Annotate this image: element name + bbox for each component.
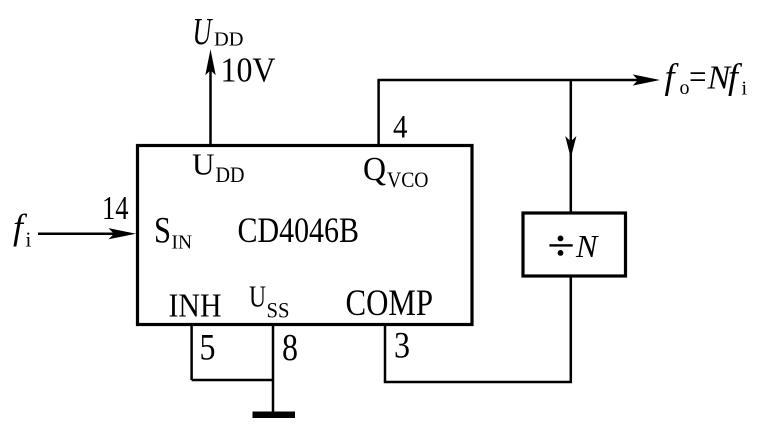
arrowhead right to fo bbox=[633, 74, 660, 85]
node input fi label bbox=[13, 207, 32, 252]
svg-text:INH: INH bbox=[169, 288, 222, 325]
label CD4046B bbox=[238, 210, 360, 250]
pin number 3 bbox=[394, 326, 410, 367]
divider block divide-by-N box bbox=[523, 213, 626, 276]
arrowhead down on divider wire bbox=[565, 136, 576, 158]
wire fi input with arrowhead into pin 14 bbox=[38, 228, 136, 239]
svg-text:5: 5 bbox=[200, 328, 216, 369]
ground bbox=[253, 412, 296, 419]
svg-text:S: S bbox=[154, 210, 171, 251]
pin number 5 bbox=[200, 328, 216, 369]
svg-text:14: 14 bbox=[102, 190, 129, 227]
pin label COMP (inside box) bbox=[346, 283, 434, 324]
svg-text:Q: Q bbox=[363, 151, 386, 188]
svg-text:COMP: COMP bbox=[346, 283, 434, 324]
svg-text:i: i bbox=[742, 78, 748, 100]
svg-text:10V: 10V bbox=[221, 52, 276, 90]
wire junction drop to divider bbox=[570, 80, 573, 214]
IC U1 CD4046B box bbox=[138, 146, 473, 325]
wire pin4 riser QVCO bbox=[377, 80, 380, 145]
svg-text:DD: DD bbox=[214, 29, 244, 51]
label N in divider bbox=[575, 228, 599, 264]
arrowhead up to UDD bbox=[205, 49, 215, 75]
pin number 4 bbox=[393, 110, 408, 146]
wire UDD supply (pin 16 riser) bbox=[209, 69, 212, 147]
wire COMP to divider bottom bbox=[384, 276, 571, 383]
svg-text:VCO: VCO bbox=[387, 167, 429, 192]
pin number 14 bbox=[102, 190, 129, 227]
svg-text:CD4046B: CD4046B bbox=[238, 210, 360, 250]
wire output top horizontal bbox=[377, 79, 640, 82]
svg-text:SS: SS bbox=[267, 298, 290, 323]
svg-text:o: o bbox=[680, 77, 690, 99]
pin label UDD (inside box) bbox=[192, 147, 245, 188]
pin label USS (inside box) bbox=[249, 279, 290, 323]
svg-text:U: U bbox=[192, 147, 215, 182]
svg-text:i: i bbox=[26, 228, 32, 252]
svg-text:U: U bbox=[193, 11, 214, 53]
wire pin5 INH drop bbox=[190, 325, 193, 380]
supply rail UDD label bbox=[193, 11, 244, 53]
svg-text:3: 3 bbox=[394, 326, 410, 367]
svg-text:N: N bbox=[575, 228, 599, 264]
svg-text:8: 8 bbox=[282, 327, 298, 369]
svg-text:4: 4 bbox=[393, 110, 408, 146]
pin label SIN (inside box) bbox=[154, 210, 192, 254]
value label 10V bbox=[221, 52, 276, 90]
svg-text:IN: IN bbox=[172, 232, 193, 254]
svg-text:DD: DD bbox=[216, 162, 245, 187]
wire pin8 USS drop to ground bbox=[272, 325, 275, 412]
pin label QVCO (inside box) bbox=[363, 151, 429, 192]
label divide sign bbox=[549, 236, 572, 256]
svg-text:U: U bbox=[249, 279, 266, 314]
pin label INH (inside box) bbox=[169, 288, 222, 325]
wire pin3 COMP drop bbox=[384, 325, 387, 382]
svg-text:=: = bbox=[689, 58, 707, 97]
wire pin5 to pin8 connector bbox=[192, 379, 273, 382]
pin number 8 bbox=[282, 327, 298, 369]
node output label fo=Nfi bbox=[665, 57, 748, 100]
